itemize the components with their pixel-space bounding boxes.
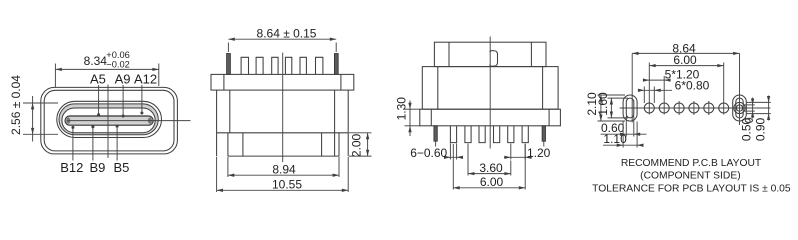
contact legs xyxy=(450,126,528,143)
svg-text:2.00: 2.00 xyxy=(350,133,364,157)
dimension 6.00 v3 xyxy=(453,144,525,190)
dimension 8.34 +0.06/-0.02 xyxy=(55,50,158,87)
dimension 1.30 xyxy=(394,97,420,136)
dimension 3.60 xyxy=(468,144,511,176)
svg-text:TOLERANCE FOR PCB LAYOUT IS ±: TOLERANCE FOR PCB LAYOUT IS ± 0.05 xyxy=(592,184,791,195)
dimension 1.60 xyxy=(596,92,628,118)
left shell pin (dark) xyxy=(227,54,231,75)
svg-text:6−0.60: 6−0.60 xyxy=(410,146,447,160)
right shell leg (dark) xyxy=(542,126,545,141)
flange xyxy=(211,74,354,90)
dimension 6-0.60 xyxy=(410,144,463,161)
svg-text:8.34: 8.34 xyxy=(84,54,108,68)
right slot outer xyxy=(733,95,747,121)
dimension 2.56 ±0.04 xyxy=(9,75,58,142)
latch notch xyxy=(490,51,498,67)
center line view2 xyxy=(282,53,284,162)
dimension 1.20 xyxy=(504,144,551,161)
tongue right cap xyxy=(148,117,152,123)
pad holes row xyxy=(644,103,654,113)
svg-text:A9: A9 xyxy=(115,71,131,86)
svg-text:10.55: 10.55 xyxy=(272,178,302,192)
center line view3 xyxy=(489,37,491,149)
leader B5 xyxy=(116,126,118,161)
tongue center line extended right xyxy=(67,120,191,122)
dimension 5*1.20 xyxy=(643,68,700,115)
svg-text:1.30: 1.30 xyxy=(394,97,408,121)
svg-text:8.94: 8.94 xyxy=(272,162,296,176)
svg-text:RECOMMEND P.C.B LAYOUT: RECOMMEND P.C.B LAYOUT xyxy=(621,158,762,169)
svg-text:B5: B5 xyxy=(113,160,129,175)
body step line xyxy=(217,132,349,134)
leader A12 xyxy=(141,85,143,113)
opening stadium 2 (gray ring) xyxy=(59,104,158,135)
tongue xyxy=(65,116,153,125)
dimension 1.10 xyxy=(603,122,644,148)
svg-text:B12: B12 xyxy=(60,160,83,175)
dimension 8.94 xyxy=(228,157,339,177)
dimension 6*0.80 xyxy=(638,79,710,104)
middle block xyxy=(422,67,558,110)
top block xyxy=(434,42,546,66)
svg-text:−0.02: −0.02 xyxy=(106,60,130,70)
bottom section xyxy=(227,133,229,156)
right slot hole 0.90 xyxy=(734,102,745,113)
svg-text:A5: A5 xyxy=(90,71,106,86)
leader mid xyxy=(107,85,109,159)
flange v3 xyxy=(420,109,561,126)
dimension 0.60 xyxy=(601,116,647,137)
leader B9 xyxy=(92,127,94,161)
dimension 8.64 (pcb) xyxy=(632,41,739,125)
dimension 0.50 xyxy=(740,98,755,142)
shell inner xyxy=(44,90,174,151)
left slot inner xyxy=(626,98,634,118)
leader B12 xyxy=(72,127,74,160)
shell outer xyxy=(41,87,178,153)
body side walls xyxy=(216,90,218,156)
hole center ticks xyxy=(678,101,680,115)
dimension 10.55 xyxy=(217,157,349,192)
leader A5 xyxy=(98,85,100,115)
right slot inner xyxy=(736,98,743,118)
svg-text:0.50: 0.50 xyxy=(740,117,754,141)
svg-text:2.56 ± 0.04: 2.56 ± 0.04 xyxy=(9,75,23,135)
svg-text:6.00: 6.00 xyxy=(480,175,504,189)
svg-text:6*0.80: 6*0.80 xyxy=(675,79,710,93)
left slot outer xyxy=(623,95,637,121)
svg-text:1.10: 1.10 xyxy=(603,132,627,146)
dimension 0.90 xyxy=(747,96,771,142)
dimension 2.10 xyxy=(585,92,625,121)
dimension 2.00 xyxy=(349,133,372,157)
svg-text:1.20: 1.20 xyxy=(527,146,551,160)
dimension 6.00 (pcb) xyxy=(649,53,723,115)
left shell leg (dark) xyxy=(434,126,437,141)
svg-text:6.00: 6.00 xyxy=(673,53,697,67)
svg-text:8.64 ± 0.15: 8.64 ± 0.15 xyxy=(257,26,317,40)
svg-text:B9: B9 xyxy=(89,160,105,175)
leader A9 xyxy=(122,85,124,116)
opening stadium 3 xyxy=(62,108,155,133)
tongue left cap xyxy=(66,117,70,123)
svg-text:3.60: 3.60 xyxy=(479,161,503,175)
svg-text:A12: A12 xyxy=(134,71,157,86)
svg-text:1.60: 1.60 xyxy=(596,92,610,116)
right shell pin (dark) xyxy=(334,54,338,75)
svg-text:0.90: 0.90 xyxy=(754,117,768,141)
svg-text:(COMPONENT SIDE): (COMPONENT SIDE) xyxy=(640,171,741,182)
opening stadium 1 xyxy=(57,101,162,137)
right slot bottom detail xyxy=(745,118,752,122)
right slot hole 0.50 xyxy=(736,105,742,111)
dimension 8.64 ±0.15 xyxy=(228,26,336,52)
row center line xyxy=(620,107,771,109)
contact teeth row xyxy=(241,57,323,74)
